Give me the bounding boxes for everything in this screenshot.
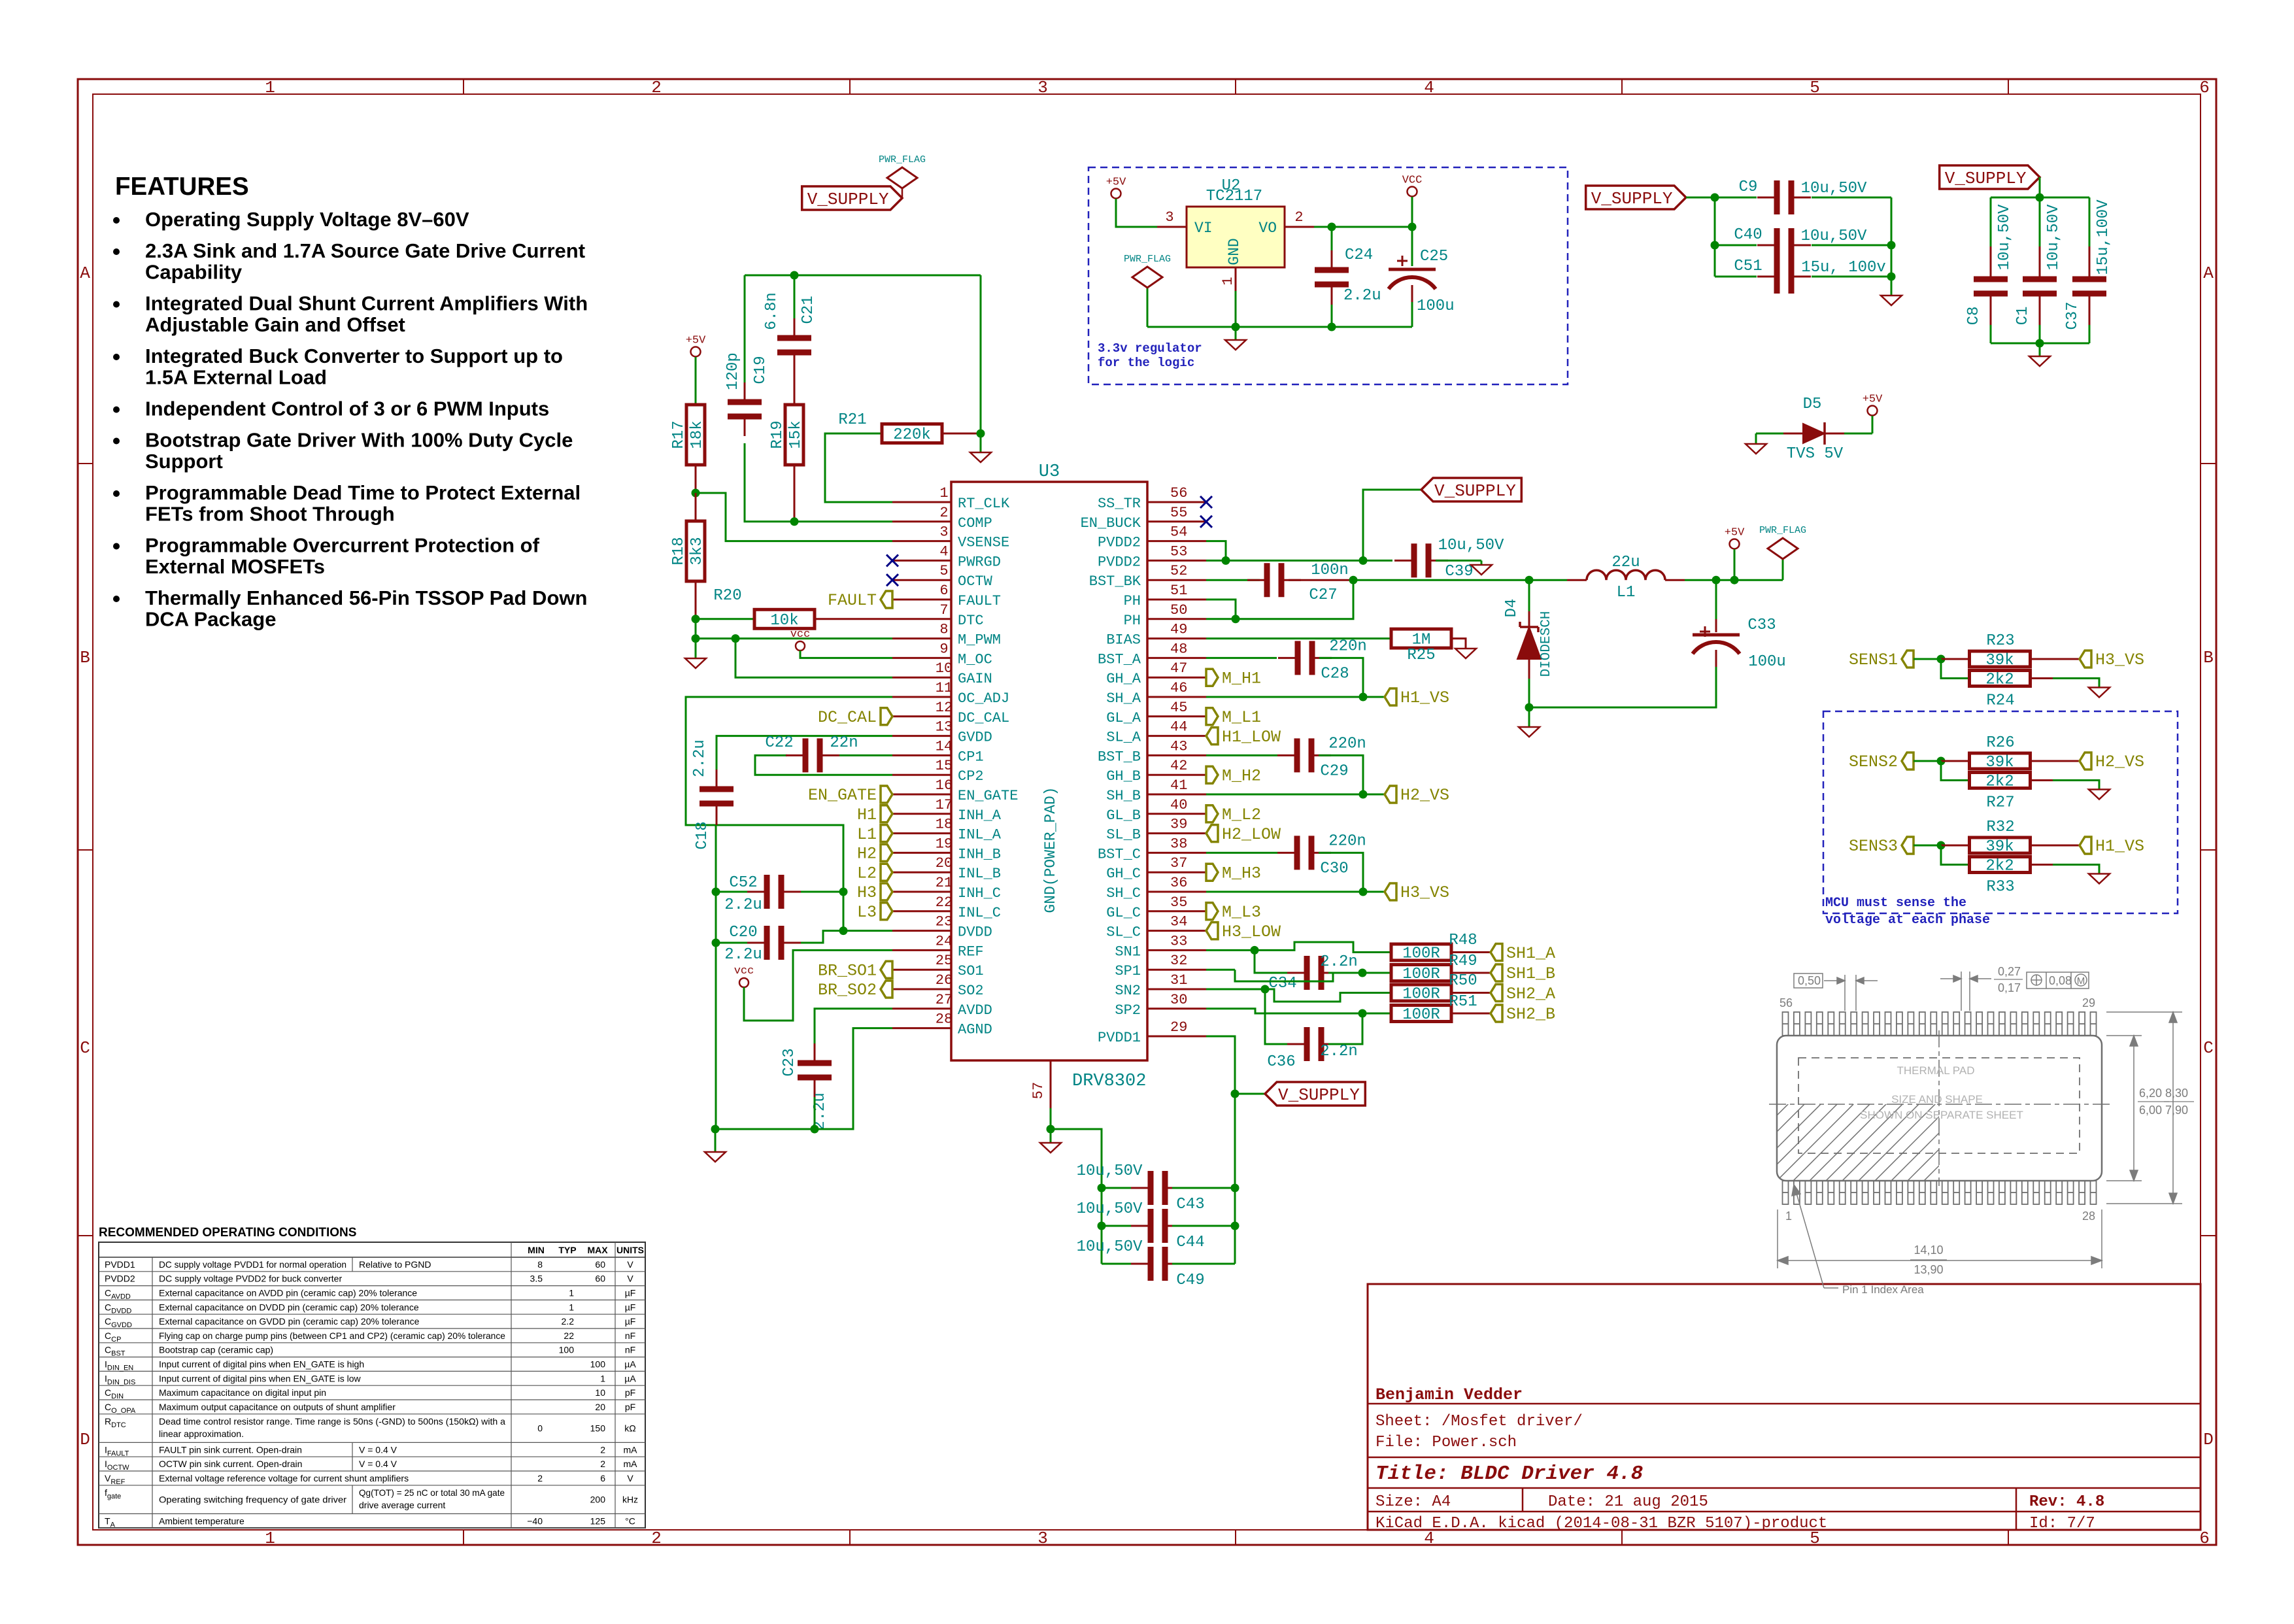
svg-text:220k: 220k (893, 426, 931, 444)
svg-text:C18: C18 (694, 821, 711, 849)
capacitor C49 10u,50V (1077, 1238, 1235, 1289)
junction power pad (1047, 1125, 1055, 1134)
svg-text:Benjamin Vedder: Benjamin Vedder (1375, 1385, 1523, 1404)
svg-text:1: 1 (569, 1288, 574, 1298)
U3 pin 9 M_OC (892, 641, 992, 668)
svg-text:Relative to PGND: Relative to PGND (359, 1259, 431, 1270)
svg-text:SH1_A: SH1_A (1506, 944, 1555, 963)
svg-text:2.2n: 2.2n (1320, 953, 1358, 971)
capacitor C39 10u,50V (1394, 537, 1504, 581)
svg-text:6: 6 (939, 583, 948, 599)
junction bulk left (1711, 194, 1719, 202)
package gray texts (1860, 1064, 2023, 1121)
svg-text:R23: R23 (1986, 632, 2014, 650)
global label M_H1 (1206, 669, 1218, 686)
hier label V_SUPPLY (bulk caps) (1586, 186, 1686, 209)
U3 pin 31 SN2 (1115, 972, 1206, 999)
svg-text:Operating Supply Voltage 8V–60: Operating Supply Voltage 8V–60V (145, 208, 469, 231)
package dimension 0,50 (1794, 973, 1878, 1011)
svg-text:40: 40 (1170, 797, 1187, 813)
svg-text:GND(POWER_PAD): GND(POWER_PAD) (1042, 787, 1059, 913)
svg-text:D: D (80, 1430, 90, 1449)
power VCC (1402, 175, 1423, 228)
svg-text:35: 35 (1170, 894, 1187, 911)
svg-text:2: 2 (939, 505, 948, 521)
svg-text:H1_LOW: H1_LOW (1222, 728, 1281, 747)
junction cap bank 2 (2036, 194, 2044, 202)
regulator U2 TC2117 (1157, 177, 1314, 327)
resistor R19 15k (769, 405, 805, 522)
svg-text:R33: R33 (1986, 879, 2014, 896)
U3 pin 18 INL_A (892, 817, 1002, 843)
svg-text:SL_C: SL_C (1106, 924, 1141, 941)
svg-text:H2_VS: H2_VS (1400, 786, 1449, 805)
svg-text:µA: µA (624, 1373, 636, 1383)
wire cap bank 2 (1991, 177, 2089, 343)
U3 pin 20 INL_B (892, 855, 1001, 882)
wire COMP (794, 520, 892, 522)
svg-text:27: 27 (936, 992, 953, 1008)
capacitor C51 15u,100v (1734, 258, 1885, 294)
svg-text:50: 50 (1170, 602, 1187, 618)
global label H1_VS (2080, 837, 2091, 854)
svg-text:5: 5 (1810, 78, 1820, 97)
svg-text:H3_VS: H3_VS (1400, 883, 1449, 902)
svg-text:M_PWM: M_PWM (958, 632, 1001, 649)
resistor R26 39k (1941, 734, 2080, 771)
svg-text:18: 18 (936, 817, 953, 833)
global label H2_VS (1363, 786, 1449, 805)
svg-text:FAULT pin sink current. Open-d: FAULT pin sink current. Open-drain (159, 1444, 302, 1455)
svg-text:2.2n: 2.2n (1320, 1043, 1358, 1060)
U3 pin 48 BST_A (1098, 641, 1206, 668)
svg-text:20: 20 (595, 1402, 605, 1412)
svg-text:1: 1 (569, 1302, 574, 1312)
wire SH_A (1206, 696, 1363, 698)
svg-text:DIODESCH: DIODESCH (1539, 611, 1554, 677)
svg-text:GL_C: GL_C (1106, 905, 1141, 921)
svg-text:EN_GATE: EN_GATE (808, 786, 877, 805)
U3 pin 50 PH (1124, 602, 1206, 629)
wire OC_ADJ (686, 697, 892, 931)
wire comp top rail (745, 275, 981, 433)
svg-text:14,10: 14,10 (1914, 1243, 1943, 1257)
package hatched pin-1 region (1679, 1102, 2199, 1181)
svg-text:29: 29 (1170, 1019, 1187, 1036)
capacitor C34 2.2n (1255, 950, 1362, 992)
svg-text:R18: R18 (670, 537, 688, 565)
svg-text:4: 4 (1424, 78, 1434, 97)
svg-text:INL_A: INL_A (958, 827, 1002, 843)
svg-text:EN_GATE: EN_GATE (958, 788, 1018, 804)
svg-text:SH_C: SH_C (1106, 885, 1141, 902)
resistor R25 1M (1206, 629, 1466, 664)
U3 pin 1 RT_CLK (892, 485, 1010, 512)
svg-text:V_SUPPLY: V_SUPPLY (1434, 481, 1516, 501)
resistor R33 2k2 (1941, 845, 2099, 896)
features bullet list (113, 208, 588, 631)
junction +5V buck (1730, 576, 1739, 584)
junction V_SUPPLY pvdd2 (1359, 556, 1368, 565)
svg-text:7,90: 7,90 (2165, 1104, 2188, 1117)
U3 power pad pin 57 (1030, 1060, 1051, 1129)
svg-text:µF: µF (625, 1316, 636, 1327)
global label FAULT (881, 591, 892, 608)
svg-text:FEATURES: FEATURES (115, 173, 249, 201)
U3 pin 45 GL_A (1106, 700, 1206, 726)
svg-text:8: 8 (939, 622, 948, 638)
U3 pin 30 SP2 (1115, 992, 1206, 1019)
svg-text:15k: 15k (787, 420, 805, 448)
svg-text:µF: µF (625, 1288, 636, 1298)
svg-text:3k3: 3k3 (688, 537, 706, 565)
svg-text:220n: 220n (1328, 832, 1366, 850)
svg-text:10: 10 (936, 660, 953, 677)
svg-text:BR_SO2: BR_SO2 (818, 981, 877, 1000)
svg-text:100n: 100n (1311, 562, 1349, 579)
svg-text:100u: 100u (1417, 297, 1455, 315)
U3 pin 52 BST_BK (1089, 563, 1206, 590)
U3 pin 54 PVDD2 (1098, 524, 1206, 551)
svg-text:FAULT: FAULT (958, 593, 1001, 609)
svg-text:100R: 100R (1402, 966, 1440, 983)
svg-text:8: 8 (537, 1259, 543, 1270)
svg-text:C51: C51 (1734, 258, 1762, 275)
svg-text:BIAS: BIAS (1106, 632, 1141, 649)
svg-text:Programmable Overcurrent Prote: Programmable Overcurrent Protection of (145, 534, 540, 557)
svg-text:55: 55 (1170, 505, 1187, 521)
svg-text:45: 45 (1170, 700, 1187, 716)
junction C52 right (839, 888, 848, 896)
junction R17/R18/VSENSE (692, 489, 700, 498)
resistor R23 39k (1941, 632, 2080, 669)
svg-text:H3_VS: H3_VS (2095, 651, 2144, 669)
U3 pin 55 EN_BUCK (1081, 505, 1206, 532)
svg-text:M: M (2077, 975, 2085, 987)
svg-text:2: 2 (651, 78, 662, 97)
svg-text:+5V: +5V (1863, 394, 1883, 406)
svg-text:2: 2 (651, 1529, 662, 1548)
global label H2_LOW (1206, 825, 1218, 842)
svg-text:R20: R20 (713, 587, 741, 605)
svg-text:2: 2 (1294, 209, 1303, 226)
svg-text:2.2u: 2.2u (691, 739, 709, 777)
global label SENS1 (1849, 651, 1914, 669)
svg-text:BST_A: BST_A (1098, 651, 1141, 668)
svg-text:H3_LOW: H3_LOW (1222, 922, 1281, 941)
svg-text:H1_VS: H1_VS (1400, 688, 1449, 707)
svg-text:SH_A: SH_A (1106, 690, 1141, 707)
svg-text:5: 5 (939, 563, 948, 579)
U3 pin 7 DTC (892, 602, 984, 629)
wire bulk cap rows (1686, 197, 1891, 277)
svg-text:External capacitance on AVDD p: External capacitance on AVDD pin (cerami… (159, 1288, 417, 1298)
svg-text:220n: 220n (1328, 735, 1366, 753)
global label SENS2 (1849, 753, 1914, 771)
svg-text:H1_VS: H1_VS (2095, 837, 2144, 856)
svg-text:M_OC: M_OC (958, 651, 992, 668)
svg-text:Id: 7/7: Id: 7/7 (2029, 1515, 2095, 1532)
svg-text:OC_ADJ: OC_ADJ (958, 690, 1009, 707)
global label L3 (881, 903, 892, 920)
svg-text:GH_A: GH_A (1106, 671, 1141, 687)
svg-text:+5V: +5V (1106, 177, 1126, 189)
svg-text:25: 25 (936, 953, 953, 969)
svg-text:0: 0 (537, 1423, 543, 1434)
power +5V (D5) (1863, 394, 1883, 434)
svg-text:C20: C20 (729, 924, 757, 941)
svg-text:D5: D5 (1803, 396, 1822, 413)
svg-text:3: 3 (1037, 1529, 1048, 1548)
svg-text:DVDD: DVDD (958, 924, 992, 941)
ground bulk caps 1 (1881, 277, 1902, 305)
global label SH1_A (1491, 944, 1502, 961)
wire SENS3 (1914, 845, 1941, 847)
svg-text:VCC: VCC (1402, 175, 1423, 187)
capacitor C23 2.2u (781, 1009, 892, 1130)
title block (1368, 1284, 2201, 1530)
wire M_PWM (696, 619, 892, 639)
junction C24 (1328, 223, 1336, 231)
svg-text:6: 6 (600, 1473, 605, 1483)
note box MCU sense (1823, 711, 2178, 913)
wire PVDD2 54 (1206, 541, 1226, 561)
diode D4 DIODESCH (1503, 580, 1554, 707)
package tolerance box (2027, 972, 2089, 989)
svg-text:SL_A: SL_A (1106, 730, 1141, 746)
ground D5 (1746, 444, 1766, 454)
svg-text:D: D (2203, 1430, 2214, 1449)
svg-text:2k2: 2k2 (1985, 671, 2014, 689)
svg-text:DC_CAL: DC_CAL (958, 710, 1009, 726)
svg-text:nF: nF (625, 1345, 635, 1355)
svg-text:6,20: 6,20 (2139, 1087, 2162, 1100)
svg-text:SH2_B: SH2_B (1506, 1005, 1555, 1024)
svg-text:32: 32 (1170, 953, 1187, 969)
svg-text:Maximum output capacitance on: Maximum output capacitance on outputs of… (159, 1402, 396, 1412)
svg-text:R32: R32 (1986, 819, 2014, 836)
svg-text:9: 9 (939, 641, 948, 657)
svg-text:10: 10 (595, 1387, 605, 1398)
U3 pin 37 GH_C (1106, 855, 1206, 882)
global label H3 (881, 883, 892, 900)
svg-text:14: 14 (936, 738, 953, 754)
U3 pin 13 GVDD (892, 719, 992, 746)
svg-text:A: A (2203, 263, 2214, 283)
capacitor C24 2.2u (1315, 227, 1381, 327)
svg-text:3: 3 (1037, 78, 1048, 97)
svg-text:Capability: Capability (145, 261, 243, 284)
svg-text:C: C (80, 1038, 90, 1058)
svg-text:V: V (627, 1259, 633, 1270)
svg-text:20: 20 (936, 855, 953, 871)
capacitor C27 100n (1206, 562, 1353, 604)
svg-text:FETs from Shoot Through: FETs from Shoot Through (145, 503, 395, 526)
power flag PWR_FLAG (v_supply) (879, 154, 926, 198)
svg-text:22u: 22u (1611, 554, 1640, 571)
resistor R27 2k2 (1941, 761, 2099, 812)
svg-text:PVDD2: PVDD2 (105, 1274, 135, 1284)
svg-text:C27: C27 (1309, 586, 1337, 604)
svg-text:2: 2 (537, 1473, 543, 1483)
svg-text:µA: µA (624, 1359, 636, 1370)
svg-text:SH2_A: SH2_A (1506, 985, 1555, 1004)
svg-text:16: 16 (936, 777, 953, 794)
svg-text:100R: 100R (1402, 945, 1440, 963)
hier label V_SUPPLY (flag) (802, 186, 902, 210)
svg-text:mA: mA (624, 1444, 638, 1455)
svg-text:R26: R26 (1986, 734, 2014, 752)
svg-text:56: 56 (1170, 485, 1187, 501)
svg-text:GL_B: GL_B (1106, 807, 1141, 824)
resistor R17 18k (670, 405, 706, 493)
capacitor C44 10u,50V (1077, 1200, 1235, 1251)
junction C52 left (712, 888, 720, 896)
svg-text:mA: mA (624, 1459, 638, 1469)
svg-text:SH_B: SH_B (1106, 788, 1141, 804)
svg-text:SO2: SO2 (958, 983, 984, 999)
power +5V (regulator input) (1106, 177, 1157, 228)
svg-text:C28: C28 (1321, 665, 1349, 683)
svg-text:REF: REF (958, 943, 984, 960)
global label EN_GATE (881, 786, 892, 803)
svg-text:36: 36 (1170, 875, 1187, 891)
wire SH row H3_VS (1206, 891, 1363, 893)
svg-text:H2_LOW: H2_LOW (1222, 825, 1281, 844)
wire SN2 (1206, 989, 1392, 1002)
no-connect EN_BUCK (1200, 516, 1212, 528)
svg-text:C9: C9 (1739, 178, 1758, 196)
svg-text:AVDD: AVDD (958, 1002, 992, 1019)
svg-text:R25: R25 (1407, 647, 1435, 664)
svg-text:Title: BLDC Driver 4.8: Title: BLDC Driver 4.8 (1375, 1463, 1643, 1485)
ground power pad (1040, 1129, 1061, 1153)
global label M_L1 (1206, 708, 1218, 725)
svg-text:SH1_B: SH1_B (1506, 964, 1555, 983)
global label SH1_B (1491, 964, 1502, 981)
junction VCC (1408, 223, 1417, 231)
svg-text:kHz: kHz (622, 1495, 638, 1505)
junction PVDD2 (1222, 556, 1230, 565)
power flag PWR_FLAG (buck) (1759, 525, 1806, 580)
svg-text:2.2u: 2.2u (724, 946, 762, 964)
svg-text:C29: C29 (1320, 762, 1348, 780)
package thermal pad dashed outline (1798, 1058, 2080, 1153)
svg-text:+5V: +5V (1725, 527, 1745, 539)
svg-text:SHOWN ON SEPARATE SHEET: SHOWN ON SEPARATE SHEET (1860, 1109, 2023, 1121)
capacitor C52 2.2u (716, 874, 843, 914)
svg-text:SO1: SO1 (958, 963, 984, 979)
U3 pin 34 SL_C (1106, 914, 1206, 941)
svg-text:1: 1 (1220, 277, 1236, 285)
svg-text:10u,50V: 10u,50V (1077, 1200, 1143, 1218)
svg-text:INH_B: INH_B (958, 846, 1001, 862)
svg-text:PVDD2: PVDD2 (1098, 535, 1141, 551)
svg-text:1: 1 (265, 1529, 275, 1548)
svg-text:KiCad E.D.A. kicad (2014-08-3: KiCad E.D.A. kicad (2014-08-31 BZR 5107)… (1375, 1515, 1827, 1532)
svg-text:10u,50V: 10u,50V (2045, 204, 2063, 270)
svg-text:10u,50V: 10u,50V (1801, 228, 1867, 245)
junction H1_VS (1359, 693, 1368, 702)
svg-text:Flying cap on charge pump pins: Flying cap on charge pump pins (between … (159, 1330, 505, 1341)
capacitor C37 15u,100V (2064, 199, 2112, 330)
resistor R18 3k3 (670, 493, 706, 619)
package bottom pins (1783, 1181, 2097, 1204)
U3 pin 49 BIAS (1106, 622, 1206, 649)
note box 3.3v regulator (1088, 167, 1568, 384)
U3 pin 10 GAIN (892, 660, 992, 687)
svg-text:BST_C: BST_C (1098, 846, 1141, 862)
svg-text:V_SUPPLY: V_SUPPLY (1278, 1085, 1360, 1105)
svg-text:MAX: MAX (587, 1245, 608, 1255)
svg-text:1: 1 (600, 1373, 605, 1383)
junction COMP (790, 517, 799, 526)
svg-text:10u,50V: 10u,50V (1077, 1238, 1143, 1256)
svg-text:R24: R24 (1986, 692, 2014, 710)
svg-text:INH_A: INH_A (958, 807, 1002, 824)
svg-text:28: 28 (936, 1011, 953, 1028)
resistor R21 220k (825, 411, 981, 502)
svg-text:TVS 5V: TVS 5V (1787, 445, 1844, 463)
svg-text:Maximum capacitance on digital: Maximum capacitance on digital input pin (159, 1387, 326, 1398)
svg-text:2: 2 (600, 1459, 605, 1469)
svg-text:13,90: 13,90 (1914, 1263, 1943, 1276)
title block texts (1375, 1385, 2104, 1532)
svg-text:2.2u: 2.2u (724, 896, 762, 914)
svg-text:CP2: CP2 (958, 768, 984, 785)
U3 pin 23 DVDD (892, 914, 992, 941)
svg-text:SN2: SN2 (1115, 983, 1141, 999)
ground left rail (705, 1129, 726, 1162)
wire gnd rail left (715, 825, 717, 1129)
resistor R49 100R (1391, 953, 1491, 983)
svg-text:0,08: 0,08 (2049, 974, 2072, 987)
svg-text:39k: 39k (1985, 652, 2014, 669)
wire SP1 (1206, 970, 1392, 981)
svg-text:17: 17 (936, 797, 953, 813)
svg-text:21: 21 (936, 875, 953, 891)
svg-text:DCA Package: DCA Package (145, 608, 276, 631)
ground cap bank 2 (2029, 343, 2050, 366)
svg-text:39k: 39k (1985, 838, 2014, 856)
svg-text:A: A (80, 263, 90, 283)
svg-text:COMP: COMP (958, 515, 992, 532)
U3 pin 22 INL_C (892, 894, 1001, 921)
svg-text:Bootstrap Gate Driver With 100: Bootstrap Gate Driver With 100% Duty Cyc… (145, 429, 573, 452)
svg-text:49: 49 (1170, 622, 1187, 638)
svg-text:56: 56 (1780, 996, 1793, 1009)
svg-text:Dead time control resistor ran: Dead time control resistor range. Time r… (159, 1416, 505, 1427)
svg-text:C25: C25 (1420, 248, 1448, 265)
svg-text:39: 39 (1170, 817, 1187, 833)
wire DVDD (843, 930, 892, 932)
svg-text:External capacitance on DVDD p: External capacitance on DVDD pin (cerami… (159, 1302, 419, 1312)
svg-text:C23: C23 (781, 1048, 798, 1076)
svg-text:120p: 120p (724, 352, 742, 390)
svg-text:10k: 10k (770, 612, 798, 630)
svg-text:UNITS: UNITS (616, 1245, 644, 1255)
svg-text:GL_A: GL_A (1106, 710, 1141, 726)
svg-text:11: 11 (936, 680, 953, 696)
svg-text:DC supply voltage PVDD1 for no: DC supply voltage PVDD1 for normal opera… (159, 1259, 346, 1270)
svg-text:C39: C39 (1445, 563, 1473, 581)
junction M_PWM (692, 634, 700, 643)
resistor R24 2k2 (1941, 659, 2099, 710)
junction gnd rail (1232, 323, 1240, 331)
junction SP1 (1358, 969, 1367, 977)
svg-text:C24: C24 (1345, 246, 1373, 264)
global label H2_VS (2080, 753, 2091, 770)
